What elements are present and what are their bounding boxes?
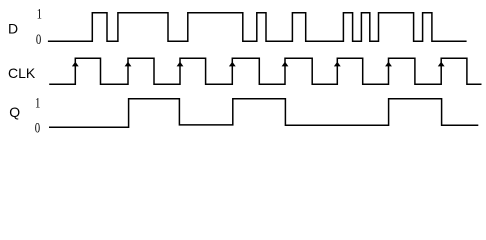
svg-text:1: 1 <box>37 5 42 22</box>
svg-text:Q: Q <box>9 104 20 120</box>
svg-text:1: 1 <box>35 94 40 111</box>
svg-text:0: 0 <box>36 30 42 47</box>
svg-text:D: D <box>8 20 18 36</box>
svg-text:CLK: CLK <box>8 65 36 81</box>
svg-text:0: 0 <box>35 119 41 136</box>
